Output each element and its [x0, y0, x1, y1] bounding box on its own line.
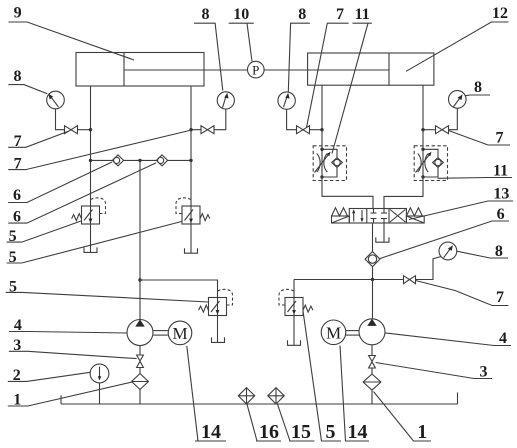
wire: pressure line down into relief 5d — [293, 280, 295, 298]
check valve bypass (left FCV) — [322, 149, 342, 177]
svg-text:16: 16 — [259, 421, 279, 443]
label 12 — [406, 5, 508, 71]
check valve 6 (right) — [156, 155, 167, 166]
wire: valve to port — [310, 129, 323, 131]
relief valve 5c (system relief, left-center) — [199, 289, 233, 315]
wire: relief 5b to tank — [190, 224, 192, 253]
node: FCV bottom — [421, 175, 424, 178]
tank (under relief 5d) — [288, 340, 301, 345]
pressure gauge 8 (right outer) — [449, 91, 467, 109]
wire: FCV right to valve port B — [384, 177, 423, 209]
node: cyl12 right port junction — [421, 128, 424, 131]
label 7 (left column upper) — [8, 131, 69, 150]
label 13 — [409, 186, 513, 220]
svg-text:15: 15 — [291, 421, 311, 443]
svg-text:9: 9 — [14, 5, 22, 22]
thermometer 2 — [90, 364, 109, 383]
tank line — [61, 403, 458, 405]
label 5 (left column first) — [7, 221, 81, 245]
label 1 (left) — [8, 382, 133, 409]
svg-text:14: 14 — [348, 421, 368, 443]
pressure sensor U10 (circle P) — [248, 61, 265, 78]
label 14 (bottom right) — [340, 346, 369, 444]
wire: valve to port — [78, 129, 91, 131]
shut-off valve 7 (left outer bowtie) — [65, 126, 78, 134]
wire: center supply line down to pump — [139, 160, 141, 319]
tank (under valve 13) — [376, 237, 389, 242]
wire: relief 5d to tank — [293, 316, 295, 346]
label 6 (left column lower) — [8, 163, 156, 226]
tank (under relief 5b) — [185, 248, 198, 253]
wire: valve P port down — [372, 223, 374, 252]
label 8 (left column) — [8, 68, 47, 94]
relief valve 5a (under left port) — [72, 198, 106, 224]
valve 13 right spring — [406, 208, 422, 216]
label 8 (top right) — [288, 6, 310, 92]
label 9 — [9, 5, 135, 61]
coupling (motor-pump right) — [346, 331, 359, 336]
wire: pump 4b suction — [371, 345, 373, 356]
wire: valve to port — [191, 129, 201, 131]
wire: pump 4a suction — [139, 346, 141, 356]
wire: pressure line — [294, 279, 404, 281]
node: FCV top — [421, 148, 424, 151]
throttle (right FCV) — [416, 152, 432, 173]
node: pump delivery junction — [371, 278, 374, 281]
svg-text:7: 7 — [336, 6, 344, 23]
wire: cyl12 left port down — [321, 85, 323, 149]
node: right port junction — [189, 128, 192, 131]
label 11 (right) — [438, 163, 513, 180]
pressure gauge 8 (left inner) — [217, 92, 234, 109]
pressure gauge 8 (left outer) — [47, 91, 65, 109]
wire: thermometer stem — [99, 383, 101, 404]
shut-off valve 7 (left inner bowtie) — [201, 126, 214, 134]
label 14 (bottom left) — [187, 346, 226, 443]
svg-text:M: M — [326, 324, 341, 343]
label 3 (right) — [376, 363, 492, 381]
filter 1b (right suction filter) — [363, 374, 381, 390]
svg-text:P: P — [252, 63, 259, 78]
svg-text:12: 12 — [492, 5, 508, 22]
wire: valve T port to tank — [383, 223, 385, 242]
svg-text:8: 8 — [14, 68, 22, 85]
cylinder 12 body — [308, 53, 434, 85]
valve 13 right solenoid — [406, 216, 424, 223]
valve 13 left position arrows — [352, 209, 364, 222]
wire: gauge stem to valve — [214, 109, 226, 130]
svg-text:8: 8 — [298, 6, 306, 23]
wire: junction down to pump 4b — [372, 280, 374, 319]
svg-text:8: 8 — [202, 6, 210, 23]
tank line right end tick — [457, 393, 459, 405]
label 6 (right) — [380, 206, 509, 259]
check valve 3b (hourglass) — [369, 356, 376, 369]
check valve 6 (left) — [112, 155, 123, 166]
label 8 (right column first) — [465, 79, 490, 96]
wire: through line — [321, 149, 323, 177]
node: FCV bottom — [320, 175, 323, 178]
wire: to gauge 8 — [416, 257, 442, 280]
label 16 — [247, 404, 281, 443]
wire: cyl9 left port down — [90, 86, 92, 206]
label 7 (top) — [307, 6, 349, 128]
svg-text:14: 14 — [201, 421, 221, 443]
valve 13 left solenoid — [332, 216, 350, 223]
cylinder 12 piston — [388, 53, 390, 85]
shut-off valve 7 (right outer bowtie) — [436, 126, 449, 134]
node: cyl12 left port junction — [320, 128, 323, 131]
label 10 — [229, 6, 254, 61]
svg-text:11: 11 — [355, 6, 370, 23]
label 8 (right column second) — [457, 243, 508, 260]
label 2 — [8, 367, 90, 384]
svg-text:10: 10 — [233, 6, 249, 23]
tank line left end tick — [60, 395, 62, 404]
wire: cyl9 right port down — [190, 86, 192, 206]
wire: filter to tank line — [371, 390, 373, 404]
label 5 (bottom) — [303, 311, 341, 443]
node: branch to unload valve — [138, 278, 141, 281]
svg-text:5: 5 — [326, 421, 336, 443]
wire — [371, 368, 373, 374]
wire: gauge stem to valve — [449, 108, 458, 130]
wire: relief 5a to tank — [90, 224, 92, 252]
label 5 (left column third) — [6, 278, 209, 302]
check valve 6 (pump line) — [365, 252, 380, 267]
check valve bypass (right FCV) — [423, 149, 443, 177]
flow control valve 11 (left) dashed enclosure — [313, 146, 346, 181]
wire: check valve to junction — [372, 267, 374, 280]
electric motor 14a (left) — [168, 321, 192, 345]
filter 1a (left suction filter) — [132, 374, 149, 390]
shut-off valve 7 (gauge isolator bowtie) — [404, 276, 416, 284]
label 11 (top) — [332, 6, 372, 154]
node — [138, 159, 141, 162]
label 3 (left) — [9, 337, 137, 359]
svg-text:M: M — [172, 324, 187, 343]
label 8 (top left) — [194, 6, 223, 91]
flow control valve 11 (right) dashed enclosure — [414, 146, 447, 181]
tank (under relief 5c) — [212, 337, 225, 342]
hydraulic pump 4b (right) — [359, 319, 385, 345]
cylinder 9 body — [76, 53, 204, 87]
wire: gauge stem to valve — [56, 109, 65, 130]
label 5 (left column second) — [7, 222, 182, 267]
electric motor 14b (right) — [321, 320, 346, 345]
wire: gauge stem to valve — [287, 109, 297, 129]
wire: cross line between cyl9 ports — [91, 159, 192, 161]
coupling (pump-motor left) — [153, 331, 167, 336]
label 7 (right column second) — [416, 281, 509, 307]
valve 13 centre position blocked ports — [371, 209, 388, 224]
wire: cyl12 right port down — [422, 85, 424, 149]
piston rod (shared, between cylinders) — [124, 69, 389, 71]
node: left port junction — [89, 128, 92, 131]
cylinder 9 piston — [123, 53, 125, 87]
label 4 (left) — [9, 317, 127, 334]
hydraulic pump 4a (left) — [127, 319, 153, 345]
wire: valve to port — [423, 129, 436, 131]
air breather 15 — [268, 388, 284, 404]
svg-text:1: 1 — [417, 421, 427, 443]
pressure gauge 8 (right inner) — [278, 92, 295, 109]
wire: filter to tank line — [139, 390, 141, 405]
wire — [139, 368, 141, 374]
wire: branch to relief valve 5c — [140, 280, 218, 298]
label 7 (left column lower) — [8, 131, 189, 173]
pressure gauge 8 (pump line) — [439, 242, 457, 260]
tank (under relief 5a) — [84, 247, 97, 252]
valve 13 right position crossed arrows — [390, 210, 405, 223]
check valve 3a (hourglass) — [137, 355, 144, 368]
relief valve 5d (system relief, right-center) — [279, 289, 313, 315]
label 6 (left column upper) — [8, 162, 112, 204]
valve 13 left spring — [332, 208, 348, 216]
wire: through line — [422, 149, 424, 177]
svg-text:8: 8 — [474, 79, 482, 96]
label 4 (right) — [385, 330, 511, 347]
label 1 (bottom right) — [374, 392, 432, 444]
label 15 — [278, 404, 315, 443]
svg-text:4: 4 — [499, 330, 507, 347]
svg-text:13: 13 — [493, 186, 509, 203]
directional valve 13 body — [349, 209, 406, 224]
wire: relief 5c to tank — [217, 316, 219, 343]
air breather 16 — [238, 388, 254, 404]
label 7 (right column first) — [449, 130, 510, 147]
svg-text:6: 6 — [13, 187, 21, 204]
node — [189, 159, 192, 162]
wire: FCV left to valve port A — [322, 177, 373, 209]
svg-text:7: 7 — [496, 289, 504, 306]
node: FCV top — [320, 148, 323, 151]
relief valve 5b (under right port) — [176, 198, 210, 224]
shut-off valve 7 (right inner bowtie) — [297, 126, 310, 134]
svg-text:7: 7 — [496, 130, 504, 147]
throttle (left FCV) — [315, 152, 331, 173]
node — [89, 159, 92, 162]
